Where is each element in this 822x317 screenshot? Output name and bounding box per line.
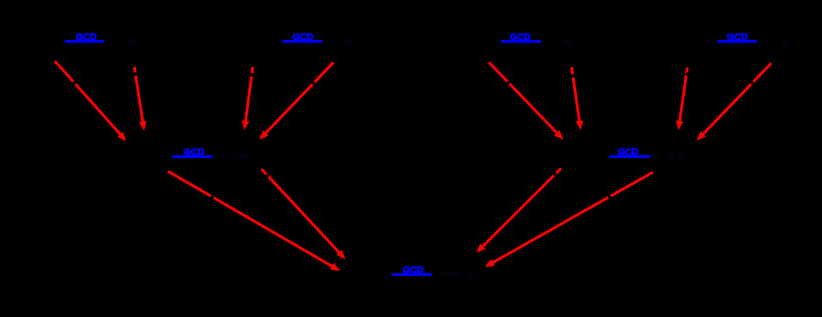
faint marks right of GCD7 (442, 272, 475, 278)
svg-text:GCD: GCD (510, 31, 531, 42)
gap on arrow a4 (686, 73, 689, 76)
gap on arrow b2 (311, 81, 314, 84)
faint index mark right of GCD4 (781, 38, 790, 47)
faint marks right of GCD5 (231, 153, 250, 161)
arrow midleft-val2 to final-left arg (262, 169, 346, 259)
arrow pair2-left num to gcd2 result (242, 67, 253, 130)
gap on arrow a1 (73, 81, 76, 84)
GCD link 1 (top-left pair) (65, 31, 105, 43)
faint index mark right of GCD2 (345, 38, 355, 47)
svg-text:GCD: GCD (618, 146, 639, 157)
gap on arrow m1a (210, 196, 213, 199)
svg-text:GCD: GCD (76, 31, 97, 42)
GCD link 7 (bottom final) (392, 264, 432, 276)
svg-text:GCD: GCD (184, 146, 205, 157)
faint marks right of GCD6 (668, 153, 687, 161)
arrow pair2-right num to gcd2 result (259, 62, 333, 139)
arrow pair3-left num to gcd3 result (489, 62, 564, 140)
GCD link 5 (middle-left) (172, 146, 212, 158)
svg-text:GCD: GCD (727, 31, 748, 42)
svg-text:GCD: GCD (403, 264, 424, 275)
GCD link 3 (top pair 3) (501, 31, 541, 43)
arrow pair4-left num to gcd4 result (676, 67, 688, 130)
gap on arrow b3 (571, 74, 574, 77)
arrow pair1-right num to gcd1 result (134, 67, 146, 131)
faint index mark right of GCD3 (563, 39, 573, 47)
GCD link 4 (top-right pair) (718, 31, 758, 43)
gap on arrow m2a (553, 172, 556, 175)
svg-text:GCD: GCD (293, 31, 314, 42)
GCD link 2 (top pair 2) (282, 31, 322, 43)
gap on arrow a2 (250, 73, 253, 76)
arrow midright-val1 to final-right arg (476, 168, 561, 253)
arrow pair3-right num to gcd3 result (572, 67, 584, 130)
arrow pair4-right num to gcd4 result (697, 63, 772, 141)
arrow midright-val2 to final-right arg (485, 172, 653, 267)
gap on arrow a3 (507, 81, 510, 84)
arrow midleft-val1 to final-left arg (168, 171, 340, 271)
arrow pair1-left num to gcd1 result (55, 61, 127, 141)
gap on arrow m1b (265, 174, 268, 177)
GCD link 6 (middle-right) (610, 146, 650, 158)
gap on arrow b1 (134, 72, 137, 75)
gap on arrow b4 (750, 81, 753, 84)
faint index mark right of GCD1 (128, 38, 137, 46)
gap on arrow m2b (608, 195, 611, 198)
